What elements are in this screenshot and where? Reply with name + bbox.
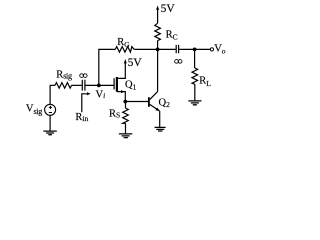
svg-text:RG: RG bbox=[117, 37, 130, 49]
transistor Q1 drain lead bbox=[117, 63, 125, 79]
transistor Q2 emitter diagonal bbox=[150, 104, 160, 111]
wire RL top lead bbox=[194, 49, 196, 68]
transistor Q1 channel bar bbox=[116, 77, 118, 92]
power +5V arrow top bbox=[156, 6, 159, 10]
transistor Q1 source arrow bbox=[121, 90, 125, 93]
resistor Rsig bbox=[55, 83, 72, 89]
ground Vsig bbox=[43, 131, 56, 135]
wire RL to ground bbox=[194, 84, 196, 100]
svg-text:Vsig: Vsig bbox=[26, 104, 42, 116]
svg-text:5V: 5V bbox=[161, 3, 176, 15]
capacitor C1 plates bbox=[82, 80, 85, 91]
wire source node to Q2 base bbox=[125, 101, 149, 103]
wire RG to RC junction bbox=[134, 48, 158, 50]
wire source node to RS bbox=[125, 102, 127, 109]
resistor RS bbox=[123, 108, 129, 123]
wire cap to Q1 gate with node Vi bbox=[86, 84, 115, 86]
wire Rsig to input cap bbox=[72, 84, 82, 86]
svg-text:Rin: Rin bbox=[75, 112, 88, 123]
svg-text:RL: RL bbox=[199, 75, 211, 88]
wire Vsig top lead bbox=[49, 85, 51, 104]
terminal Vo open circle bbox=[210, 48, 213, 51]
ground RS bbox=[119, 134, 132, 138]
transistor Q2 collector diagonal bbox=[150, 92, 158, 100]
capacitor C2 infinity label bbox=[175, 60, 182, 64]
wire RS to ground bbox=[125, 123, 127, 133]
transistor Q2 base bar bbox=[148, 97, 150, 107]
svg-text:Vi: Vi bbox=[96, 89, 106, 100]
wire input row left lead bbox=[50, 84, 55, 86]
svg-text:Vo: Vo bbox=[214, 44, 226, 56]
svg-text:RS: RS bbox=[109, 109, 120, 120]
svg-text:RC: RC bbox=[166, 30, 178, 42]
wire RC top to 5V arrow bbox=[157, 9, 159, 24]
wire collector vertical bbox=[157, 49, 159, 91]
node RC junction dot bbox=[156, 48, 160, 52]
ground Q2 bbox=[155, 127, 166, 131]
wire RC bottom lead bbox=[157, 41, 159, 50]
Rin arrow indicator bbox=[82, 94, 88, 112]
wire junction to output cap bbox=[158, 48, 176, 50]
node Vi junction dot bbox=[97, 83, 101, 87]
capacitor C2 plates bbox=[176, 45, 178, 53]
wire Vsig bottom lead bbox=[49, 115, 51, 130]
capacitor C1 infinity label bbox=[80, 74, 87, 78]
resistor RC bbox=[155, 23, 161, 40]
wire Q2 emitter vertical bbox=[159, 111, 161, 127]
Rin arrowhead bbox=[87, 92, 91, 95]
node output junction dot bbox=[193, 48, 197, 52]
Vsig minus sign bbox=[49, 112, 52, 114]
transistor Q1 source lead bbox=[117, 92, 125, 102]
svg-text:Q1: Q1 bbox=[125, 80, 137, 92]
power +5V arrow Q1 drain bbox=[124, 59, 127, 63]
svg-text:Rsig: Rsig bbox=[56, 70, 72, 81]
source Vsig circle bbox=[45, 104, 56, 115]
node Q1 source junction dot bbox=[123, 100, 127, 104]
Vsig plus sign bbox=[49, 106, 52, 109]
wire RG branch vertical bbox=[99, 49, 116, 85]
svg-text:Q2: Q2 bbox=[159, 97, 171, 109]
resistor RL bbox=[192, 68, 198, 84]
transistor Q2 emitter arrow bbox=[155, 108, 159, 112]
resistor RG bbox=[115, 47, 134, 53]
ground RL bbox=[188, 101, 201, 105]
svg-text:5V: 5V bbox=[128, 57, 143, 69]
transistor Q1 gate bar bbox=[113, 78, 115, 89]
wire output cap to Vo bbox=[179, 48, 210, 50]
